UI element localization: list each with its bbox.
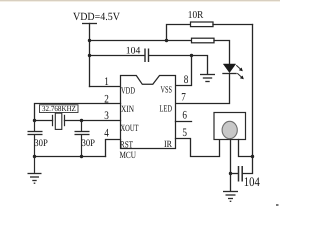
junction bus left xyxy=(33,155,36,158)
ground GND3 xyxy=(223,192,238,202)
wire pin 2 XIN xyxy=(35,104,121,121)
ground GND1 xyxy=(200,75,215,82)
junction bus right xyxy=(80,155,83,158)
svg-text:MCU: MCU xyxy=(120,151,137,161)
crystal Y1 xyxy=(53,113,65,129)
capacitor C3 30P right xyxy=(75,121,90,157)
junction cap node xyxy=(229,172,232,175)
capacitor C1 104 bypass xyxy=(145,49,149,63)
wire crystal left / pin 3 line xyxy=(35,120,53,122)
svg-text:1: 1 xyxy=(104,76,109,88)
svg-text:5: 5 xyxy=(182,127,187,139)
svg-text:4: 4 xyxy=(104,128,109,140)
wire resistor rail xyxy=(90,40,167,42)
wire crystal right to pin 3 xyxy=(65,120,121,122)
wire VDD vertical xyxy=(89,24,91,87)
svg-text:30P: 30P xyxy=(82,138,96,149)
svg-text:10R: 10R xyxy=(188,10,204,21)
svg-text:30P: 30P xyxy=(34,138,48,149)
wire cap left lead xyxy=(231,173,239,175)
artifact speck xyxy=(276,204,279,206)
wire ground bus xyxy=(35,156,106,158)
junction VDD-resistor rail xyxy=(88,39,91,42)
svg-text:6: 6 xyxy=(182,109,187,121)
wire VSS node to pin 8 xyxy=(176,56,192,86)
capacitor C4 104 xyxy=(239,166,243,182)
wire pin 4 RST xyxy=(106,140,121,157)
ground GND2 xyxy=(28,157,42,184)
resistor R2 xyxy=(192,38,215,43)
svg-text:104: 104 xyxy=(126,46,141,57)
junction right rail xyxy=(251,155,254,158)
wire pin 5 IR xyxy=(176,139,220,157)
svg-text:104: 104 xyxy=(244,174,260,189)
junction crystal left node xyxy=(33,119,36,122)
IR receiver U2 xyxy=(214,113,246,140)
wire bypass rail left xyxy=(90,55,145,57)
svg-text:32.768KHZ: 32.768KHZ xyxy=(42,104,76,113)
capacitor C2 30P left xyxy=(28,121,43,157)
wire pin 1 VDD xyxy=(90,86,121,88)
svg-text:XOUT: XOUT xyxy=(121,124,139,134)
svg-text:VDD: VDD xyxy=(121,87,135,97)
svg-text:RST: RST xyxy=(120,141,133,151)
junction resistor split node xyxy=(165,39,168,42)
wire pin 6 stub xyxy=(176,121,192,123)
wire receiver right lead xyxy=(239,140,253,157)
power rail T-bar xyxy=(82,23,97,25)
wire up to R1 xyxy=(167,25,191,41)
wire R1 to right rail xyxy=(213,24,253,26)
top border line xyxy=(0,0,280,2)
svg-text:IR: IR xyxy=(164,140,173,150)
wire receiver center lead to ground xyxy=(230,140,232,192)
wire LED cathode to pin 7 xyxy=(176,74,230,104)
wire R2 to LED anode xyxy=(214,41,230,65)
svg-text:XIN: XIN xyxy=(121,105,134,115)
junction VSS node xyxy=(190,54,193,57)
svg-text:VSS: VSS xyxy=(161,86,173,96)
LED D1 xyxy=(222,64,244,79)
resistor R1 10R xyxy=(191,22,214,27)
svg-text:7: 7 xyxy=(181,92,186,104)
junction crystal right node xyxy=(80,119,83,122)
wire to R2 xyxy=(167,40,192,42)
wire VSS node to ground xyxy=(192,56,208,74)
wire right rail vertical xyxy=(243,25,253,174)
svg-text:LED: LED xyxy=(160,105,173,115)
IC U1 MCU body xyxy=(121,76,176,149)
junction VDD-bypass xyxy=(88,54,91,57)
svg-text:VDD=4.5V: VDD=4.5V xyxy=(73,11,120,23)
wire bypass rail right xyxy=(149,55,192,57)
label box 32.768KHZ xyxy=(40,105,79,113)
svg-text:8: 8 xyxy=(184,74,189,86)
